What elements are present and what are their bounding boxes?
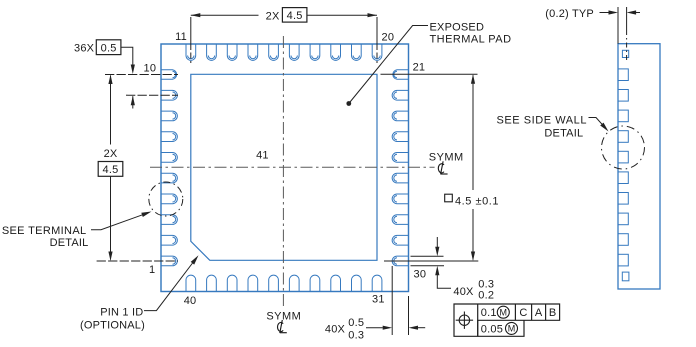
SYMM label (right) bbox=[429, 151, 464, 163]
pin 9 center extension line bbox=[126, 94, 178, 96]
pin 25 (right column) bbox=[392, 153, 408, 163]
pin 23 (right column) bbox=[392, 111, 408, 121]
centerline symbol (bottom) bbox=[278, 320, 287, 333]
side view terminal 3 bbox=[618, 110, 628, 122]
pin 38 (bottom row) bbox=[227, 275, 237, 291]
svg-text:4.5 ±0.1: 4.5 ±0.1 bbox=[455, 196, 499, 208]
pin 3 (left column) bbox=[161, 215, 177, 225]
vertical symmetry centerline bbox=[282, 36, 284, 307]
pin 18 (top row) bbox=[331, 44, 341, 60]
pin 10 (left column) bbox=[161, 70, 177, 80]
tolerance 0.05 M bbox=[481, 322, 518, 335]
SEE TERMINAL DETAIL label with leader bbox=[2, 212, 152, 250]
pin 4 (left column) bbox=[161, 194, 177, 204]
svg-text:M: M bbox=[500, 307, 508, 317]
true position symbol bbox=[456, 312, 473, 329]
svg-text:SYMM: SYMM bbox=[266, 310, 301, 322]
pin 12 (top row) bbox=[207, 44, 217, 60]
pin 1 center extension line bbox=[97, 260, 178, 262]
svg-text:36X: 36X bbox=[74, 42, 95, 54]
pin 39 (bottom row) bbox=[207, 275, 217, 291]
pin 16 (top row) bbox=[289, 44, 299, 60]
svg-text:(0.2) TYP: (0.2) TYP bbox=[545, 8, 594, 20]
pin 20 (top row) bbox=[372, 44, 382, 60]
pin 9 (left column) bbox=[161, 90, 177, 100]
tolerance 0.1 M | C A B bbox=[481, 306, 557, 319]
pin 30 center extension line bbox=[384, 260, 478, 262]
svg-text:SEE SIDE WALL: SEE SIDE WALL bbox=[497, 115, 588, 127]
svg-text:PIN 1 ID: PIN 1 ID bbox=[100, 307, 143, 319]
svg-text:1: 1 bbox=[149, 264, 155, 276]
svg-text:21: 21 bbox=[413, 62, 426, 74]
side view terminal 9 bbox=[618, 234, 628, 246]
pin 21 (right column) bbox=[393, 70, 409, 80]
pin 35 (bottom row) bbox=[289, 275, 299, 291]
side view terminal 6 bbox=[618, 172, 628, 184]
side view corner terminal (top, inset) bbox=[622, 50, 628, 57]
pin 36 (bottom row) bbox=[269, 275, 279, 291]
dimension 40X 0.3/0.2 (terminal width) bbox=[411, 237, 495, 301]
svg-text:0.1: 0.1 bbox=[481, 307, 497, 319]
side wall detail circle (dashed) bbox=[602, 126, 645, 169]
pin 8 (left column) bbox=[161, 111, 177, 121]
svg-text:A: A bbox=[535, 307, 543, 319]
side view terminal 1 bbox=[618, 69, 628, 81]
feature control frame boxes bbox=[454, 304, 560, 336]
svg-text:0.2: 0.2 bbox=[478, 289, 494, 301]
pin 11 (top row) bbox=[186, 44, 196, 60]
svg-text:0.5: 0.5 bbox=[348, 317, 364, 329]
side view terminal 5 bbox=[618, 151, 628, 163]
side view terminal 10 bbox=[618, 254, 628, 266]
pin 26 (right column) bbox=[392, 173, 408, 183]
terminal detail circle (dashed) bbox=[149, 182, 183, 216]
pin 6 (left column) bbox=[161, 153, 177, 163]
svg-text:40: 40 bbox=[184, 295, 197, 307]
svg-text:B: B bbox=[549, 307, 557, 319]
svg-text:DETAIL: DETAIL bbox=[544, 127, 583, 139]
svg-text:31: 31 bbox=[372, 293, 385, 305]
svg-text:EXPOSED: EXPOSED bbox=[430, 22, 485, 34]
SYMM label (bottom) bbox=[266, 310, 301, 322]
pin 15 (top row) bbox=[269, 44, 279, 60]
pin 24 (right column) bbox=[392, 132, 408, 142]
svg-text:THERMAL PAD: THERMAL PAD bbox=[430, 34, 512, 46]
pin 22 (right column) bbox=[392, 90, 408, 100]
exposed thermal pad outline with pin 1 chamfer bbox=[191, 74, 377, 260]
pin 7 (left column) bbox=[161, 132, 177, 142]
PIN 1 ID (OPTIONAL) label with leader bbox=[80, 255, 199, 331]
svg-text:2X: 2X bbox=[266, 10, 280, 22]
SEE SIDE WALL DETAIL label with leader bbox=[497, 115, 609, 140]
svg-text:(OPTIONAL): (OPTIONAL) bbox=[80, 320, 145, 332]
pin 17 (top row) bbox=[310, 44, 320, 60]
svg-text:11: 11 bbox=[175, 31, 187, 43]
svg-text:40X: 40X bbox=[453, 286, 474, 298]
svg-text:20: 20 bbox=[382, 32, 395, 44]
EXPOSED THERMAL PAD label with leader dot bbox=[346, 22, 511, 106]
pin 34 (bottom row) bbox=[310, 275, 320, 291]
dimension 2X 4.5 (left, pin 10 to pin 1 span) bbox=[98, 75, 123, 262]
svg-text:0.05: 0.05 bbox=[481, 323, 503, 335]
horizontal symmetry centerline bbox=[150, 166, 435, 168]
svg-text:41: 41 bbox=[256, 150, 269, 162]
dimension square 4.5 +/-0.1 (thermal pad size) bbox=[445, 74, 499, 261]
svg-text:DETAIL: DETAIL bbox=[50, 237, 89, 249]
svg-text:10: 10 bbox=[144, 63, 157, 75]
dimension (0.2) TYP (side view) bbox=[545, 7, 640, 60]
svg-text:40X: 40X bbox=[325, 324, 346, 336]
pin 1 (left column) bbox=[161, 256, 177, 266]
pin 33 (bottom row) bbox=[331, 275, 341, 291]
svg-text:M: M bbox=[508, 324, 516, 334]
dimension 40X 0.5/0.3 (terminal length) bbox=[325, 266, 425, 341]
side view terminal 4 bbox=[618, 131, 628, 143]
side view package body outline bbox=[618, 44, 660, 289]
pin 28 (right column) bbox=[392, 215, 408, 225]
svg-text:SEE TERMINAL: SEE TERMINAL bbox=[2, 225, 87, 237]
svg-text:2X: 2X bbox=[104, 148, 118, 160]
pin 31 (bottom row) bbox=[372, 275, 382, 291]
pin 10 center extension line bbox=[105, 74, 178, 76]
dimension 36X 0.5 (pin pitch) bbox=[74, 40, 135, 109]
pin 30 (right column) bbox=[392, 256, 408, 266]
side view terminal 7 bbox=[618, 193, 628, 205]
svg-text:SYMM: SYMM bbox=[429, 151, 464, 163]
centerline symbol (right) bbox=[438, 161, 447, 174]
pin 29 (right column) bbox=[392, 235, 408, 245]
pin 5 (left column) bbox=[161, 173, 177, 183]
pin 37 (bottom row) bbox=[248, 275, 258, 291]
side view terminal 8 bbox=[618, 213, 628, 225]
pin 40 (bottom row) bbox=[186, 275, 196, 291]
svg-text:30: 30 bbox=[414, 268, 427, 280]
pin 21 center extension line bbox=[381, 73, 478, 75]
svg-text:0.3: 0.3 bbox=[348, 329, 364, 341]
package body outline (top view) bbox=[161, 44, 409, 292]
pin 2 (left column) bbox=[161, 235, 177, 245]
pin 19 (top row) bbox=[352, 44, 362, 60]
svg-text:4.5: 4.5 bbox=[103, 164, 119, 176]
side view corner terminal (bottom, inset) bbox=[622, 272, 629, 281]
svg-text:4.5: 4.5 bbox=[287, 10, 303, 22]
pin 13 (top row) bbox=[227, 44, 237, 60]
dimension 2X 4.5 (top, pin 11 to pin 20 span) bbox=[191, 8, 377, 63]
pin 32 (bottom row) bbox=[352, 275, 362, 291]
svg-text:0.5: 0.5 bbox=[101, 42, 117, 54]
svg-text:C: C bbox=[519, 307, 527, 319]
side view terminal 2 bbox=[618, 90, 628, 102]
pin 27 (right column) bbox=[392, 194, 408, 204]
pin 14 (top row) bbox=[248, 44, 258, 60]
